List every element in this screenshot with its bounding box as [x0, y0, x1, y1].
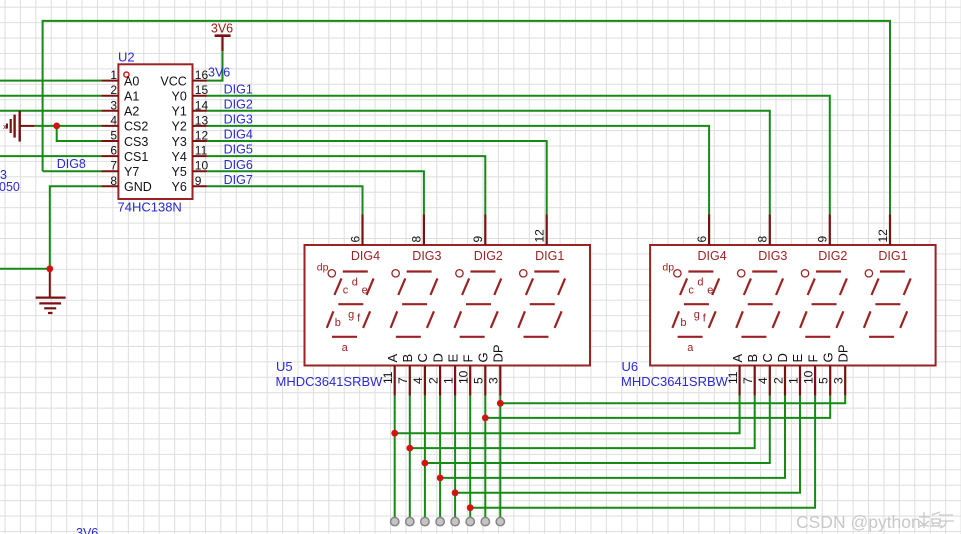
svg-text:9: 9	[816, 236, 830, 243]
svg-text:050: 050	[0, 180, 20, 194]
svg-text:4: 4	[411, 377, 425, 384]
junction at ground node	[46, 265, 53, 272]
junction SEG-D on U5 column	[437, 475, 444, 482]
svg-text:E: E	[790, 354, 805, 363]
junction SEG-C on U5 column	[422, 460, 429, 467]
svg-text:DIG2: DIG2	[224, 97, 253, 111]
svg-text:74HC138N: 74HC138N	[118, 200, 182, 215]
U6 top pin stubs (digit commons)	[709, 215, 890, 246]
svg-text:Y0: Y0	[172, 90, 187, 104]
battery BT? (cell stack, rotated, clipped at left edge)	[7, 111, 35, 142]
svg-text:2: 2	[771, 377, 785, 384]
wire net DIG7: pin9 to U5 DIG4 pin	[207, 186, 363, 214]
U6 7-segment digit 1	[672, 270, 719, 337]
svg-text:DIG6: DIG6	[224, 158, 253, 172]
terminal pad (gray)	[451, 517, 459, 525]
svg-text:9: 9	[195, 174, 202, 188]
svg-text:9: 9	[471, 236, 485, 243]
terminal pad (gray)	[481, 517, 489, 525]
display U5 MHDC3641SRBW body	[305, 245, 591, 366]
svg-text:Y5: Y5	[172, 165, 187, 179]
svg-text:DIG4: DIG4	[224, 128, 253, 142]
wire net SEG-G: U5 G pin to U6 G pin	[485, 396, 830, 418]
terminal pad (gray)	[391, 517, 399, 525]
svg-text:dp: dp	[662, 262, 674, 274]
svg-text:2: 2	[426, 377, 440, 384]
wire net CS2 from battery to pin4	[35, 125, 102, 127]
svg-text:3V6: 3V6	[211, 21, 233, 35]
svg-text:E: E	[445, 354, 460, 363]
svg-text:C: C	[760, 353, 775, 362]
U5 7-segment digit 4	[518, 270, 565, 337]
wire net DIG5: pin11 to U5 DIG2 pin	[207, 156, 485, 214]
svg-text:4: 4	[110, 113, 117, 127]
wire net SEG-A: U5 A pin to U6 A pin	[395, 396, 740, 434]
svg-text:3: 3	[832, 377, 846, 384]
svg-text:MHDC3641SRBW: MHDC3641SRBW	[276, 374, 384, 389]
svg-text:C: C	[415, 353, 430, 362]
svg-text:DIG1: DIG1	[224, 82, 253, 96]
svg-text:12: 12	[876, 229, 890, 243]
svg-text:Y4: Y4	[172, 150, 187, 164]
svg-text:d: d	[697, 277, 703, 289]
svg-text:g: g	[694, 309, 700, 321]
junction SEG-DP on U5 column	[497, 400, 504, 407]
U6 7-segment digit 2	[736, 270, 783, 337]
svg-text:DIG3: DIG3	[224, 113, 253, 127]
watermark CJK glyphs	[919, 512, 954, 528]
svg-text:DIG5: DIG5	[224, 143, 253, 157]
svg-text:DIG4: DIG4	[351, 249, 380, 263]
svg-text:F: F	[805, 355, 820, 363]
wire net CS1 row	[0, 155, 101, 157]
svg-text:7: 7	[741, 377, 755, 384]
junction SEG-B on U5 column	[406, 445, 413, 452]
svg-text:A0: A0	[124, 74, 139, 88]
svg-text:13: 13	[195, 113, 209, 127]
terminal pad (gray)	[496, 517, 504, 525]
wire net A0 row	[0, 80, 101, 82]
svg-text:15: 15	[195, 83, 209, 97]
svg-text:3V6: 3V6	[208, 66, 230, 80]
U5 7-segment digit 2	[391, 270, 438, 337]
svg-text:VCC: VCC	[160, 74, 186, 88]
svg-text:12: 12	[195, 129, 209, 143]
wire net SEG-D: U5 D pin to U6 D pin	[440, 396, 785, 478]
svg-text:G: G	[820, 352, 835, 362]
svg-text:7: 7	[110, 159, 117, 173]
svg-text:4: 4	[756, 377, 770, 384]
svg-text:c: c	[688, 285, 694, 297]
svg-text:DIG1: DIG1	[878, 249, 907, 263]
svg-text:14: 14	[195, 98, 209, 112]
svg-text:8: 8	[756, 236, 770, 243]
wire net GND: pin8 left and down to ground	[0, 186, 101, 268]
svg-text:a: a	[342, 342, 349, 354]
svg-text:DIG1: DIG1	[535, 249, 564, 263]
svg-text:a: a	[687, 342, 694, 354]
terminal pad (gray)	[436, 517, 444, 525]
svg-text:8: 8	[410, 236, 424, 243]
wire U5 segment columns down to test terminals	[395, 396, 501, 518]
svg-text:B: B	[745, 354, 760, 363]
U5 bottom pin stubs (segments)	[395, 366, 501, 396]
svg-text:U5: U5	[276, 359, 293, 374]
svg-text:DIG3: DIG3	[412, 249, 441, 263]
svg-text:6: 6	[348, 236, 362, 243]
svg-text:MHDC3641SRBW: MHDC3641SRBW	[621, 374, 729, 389]
svg-text:6: 6	[695, 236, 709, 243]
wire net DIG4: pin12 to U5 DIG1 pin	[207, 141, 547, 215]
wire net SEG-F: U5 F pin to U6 F pin	[470, 396, 815, 508]
svg-text:x: x	[3, 122, 7, 131]
U5 top pin stubs (digit commons)	[363, 215, 547, 246]
U5 7-segment digit 3	[454, 270, 501, 337]
svg-text:3: 3	[487, 377, 501, 384]
wire net SEG-B: U5 B pin to U6 B pin	[410, 396, 755, 449]
svg-text:D: D	[430, 353, 445, 362]
svg-text:6: 6	[110, 144, 117, 158]
wire net SEG-E: U5 E pin to U6 E pin	[455, 396, 800, 493]
wire net DIG8: U2 pin7 to top rail to U6 DIG1 pin	[43, 21, 890, 215]
IC U2 74HC138N body	[118, 64, 192, 199]
svg-text:GND: GND	[124, 180, 152, 194]
svg-text:1: 1	[441, 377, 455, 384]
svg-text:8: 8	[110, 174, 117, 188]
junction SEG-E on U5 column	[452, 489, 459, 496]
svg-text:2: 2	[110, 83, 117, 97]
svg-text:A2: A2	[124, 105, 139, 119]
U6 bottom pin stubs (segments)	[740, 366, 846, 396]
svg-text:A1: A1	[124, 90, 139, 104]
svg-text:16: 16	[195, 68, 209, 82]
svg-text:5: 5	[110, 129, 117, 143]
svg-text:CS2: CS2	[124, 120, 148, 134]
svg-text:10: 10	[195, 159, 209, 173]
svg-text:DIG7: DIG7	[224, 173, 253, 187]
svg-text:5: 5	[472, 377, 486, 384]
terminal pad (gray)	[421, 517, 429, 525]
U5 7-segment digit 1	[327, 270, 374, 337]
svg-text:b: b	[335, 317, 341, 329]
U2 left pin stubs 1-8	[101, 81, 118, 187]
svg-text:5: 5	[817, 377, 831, 384]
U6 7-segment digit 4	[864, 270, 911, 337]
ground symbol	[36, 269, 66, 313]
svg-text:U6: U6	[622, 359, 639, 374]
svg-text:F: F	[460, 355, 475, 363]
svg-text:3: 3	[110, 98, 117, 112]
svg-text:dp: dp	[317, 262, 329, 274]
svg-text:CSDN @python: CSDN @python	[796, 512, 921, 532]
svg-text:D: D	[775, 353, 790, 362]
terminal pad (gray)	[406, 517, 414, 525]
svg-text:DIG8: DIG8	[57, 157, 86, 171]
svg-text:d: d	[352, 277, 358, 289]
svg-text:DIG2: DIG2	[474, 249, 503, 263]
svg-text:c: c	[343, 285, 349, 297]
svg-text:Y2: Y2	[172, 120, 187, 134]
svg-text:Y1: Y1	[172, 105, 187, 119]
svg-text:12: 12	[533, 229, 547, 243]
wire net SEG-C: U5 C pin to U6 C pin	[425, 396, 770, 463]
svg-text:Y3: Y3	[172, 135, 187, 149]
svg-text:1: 1	[110, 68, 117, 82]
svg-text:CS1: CS1	[124, 150, 148, 164]
wire net A1 row	[0, 95, 101, 97]
svg-text:7: 7	[396, 377, 410, 384]
svg-text:DIG2: DIG2	[818, 249, 847, 263]
power flag 3V6	[215, 36, 231, 52]
wire net DIG1: pin15 to U6 DIG2 pin	[207, 96, 830, 215]
junction at CS2 branch	[53, 123, 60, 130]
junction SEG-G on U5 column	[482, 415, 489, 422]
wire net DIG2: pin14 to U6 DIG3 pin	[207, 111, 770, 215]
terminal pad (gray)	[466, 517, 474, 525]
svg-text:3V6: 3V6	[76, 526, 98, 534]
svg-text:b: b	[680, 317, 686, 329]
U6 7-segment digit 3	[800, 270, 847, 337]
svg-text:DIG4: DIG4	[698, 249, 727, 263]
wire net A2 row	[0, 110, 101, 112]
svg-text:U2: U2	[118, 50, 135, 65]
wire net DIG6: pin10 to U5 DIG3 pin	[207, 171, 424, 214]
svg-text:DP: DP	[491, 344, 506, 362]
svg-text:11: 11	[726, 371, 740, 384]
svg-text:1: 1	[786, 377, 800, 384]
wire net SEG-DP: U5 DP pin to U6 DP pin	[500, 396, 845, 404]
wire net DIG3: pin13 to U6 DIG4 pin	[207, 126, 709, 215]
svg-text:Y7: Y7	[124, 165, 139, 179]
wire branch junction to CS3 pin5	[57, 126, 102, 141]
svg-text:e: e	[362, 285, 368, 297]
svg-text:g: g	[348, 309, 354, 321]
svg-text:A: A	[730, 354, 745, 363]
svg-text:A: A	[385, 354, 400, 363]
svg-text:e: e	[707, 285, 713, 297]
svg-text:11: 11	[195, 144, 208, 158]
svg-text:10: 10	[457, 370, 471, 384]
display U6 MHDC3641SRBW body	[650, 245, 936, 366]
svg-text:11: 11	[381, 371, 395, 384]
svg-text:CS3: CS3	[124, 135, 148, 149]
junction SEG-A on U5 column	[391, 430, 398, 437]
svg-text:G: G	[476, 352, 491, 362]
U2 right pin stubs 16-9	[193, 81, 207, 187]
wire net 3V6 to VCC pin16	[207, 51, 223, 80]
U2 pin1 indicator circle	[124, 72, 129, 77]
svg-text:DP: DP	[835, 344, 850, 362]
svg-text:DIG3: DIG3	[758, 249, 787, 263]
svg-text:Y6: Y6	[172, 180, 187, 194]
junction SEG-F on U5 column	[467, 504, 474, 511]
svg-text:B: B	[400, 354, 415, 363]
svg-text:10: 10	[801, 370, 815, 384]
